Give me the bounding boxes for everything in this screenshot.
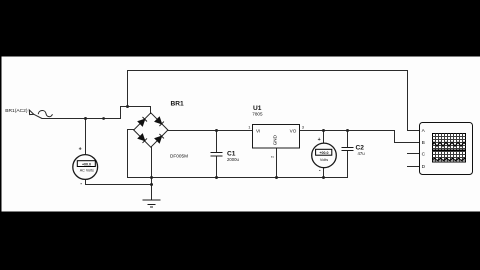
svg-text:47u: 47u [358, 151, 366, 156]
oscilloscope waveform B flat [433, 149, 466, 151]
voltmeter V1 (AC Volts) circle [73, 155, 98, 180]
svg-text:BR1: BR1 [171, 101, 185, 108]
node on input wire [102, 117, 105, 120]
svg-text:DF005M: DF005M [170, 153, 188, 158]
AC source sine symbol [38, 111, 52, 117]
wire bridge right corner to U1 VI [168, 130, 253, 132]
voltmeter V2 (Volts) circle [312, 143, 337, 168]
capacitor C2 plates [342, 148, 354, 151]
junction dots [84, 105, 349, 186]
svg-text:7805: 7805 [252, 111, 263, 116]
diode D1 top-left (left to top) [138, 117, 147, 126]
svg-text:+: + [79, 147, 82, 153]
wire voltmeter1 minus [86, 179, 152, 184]
wire scope C stub [408, 153, 420, 155]
svg-text:+: + [318, 137, 321, 143]
diode D2 top-right (top to right) [155, 117, 164, 126]
svg-text:VO: VO [290, 129, 297, 134]
wire from terminal to source [34, 114, 42, 118]
wire step up to bridge [121, 107, 151, 119]
wire top rail branch to scope A [128, 71, 420, 131]
wire to scope B [395, 131, 420, 143]
node C1 bottom [215, 176, 218, 179]
node voltmeter1 tap [84, 117, 87, 120]
diode D3 bottom-right (bottom to right) [155, 134, 164, 143]
wire ground rail [152, 177, 348, 179]
wire bridge bottom corner down to ground [151, 147, 153, 200]
diode D4 bottom-left (left to bottom) [138, 134, 147, 143]
wire C2 top [347, 131, 349, 148]
svg-text:Volts: Volts [320, 158, 328, 162]
bridge rectifier BR1 diamond [134, 113, 168, 147]
oscilloscope grid [433, 134, 466, 163]
voltmeter V2 display [316, 149, 332, 155]
wire C1 top [216, 131, 218, 153]
wire voltmeter2 plus [323, 131, 325, 144]
wire bridge left corner to ground rail [128, 130, 152, 178]
oscilloscope box [420, 123, 473, 175]
svg-text:C: C [422, 152, 426, 158]
svg-text:+00.0: +00.0 [82, 162, 91, 166]
node C2 top [346, 129, 349, 132]
voltmeter V1 display [77, 161, 95, 167]
svg-text:GND: GND [273, 134, 278, 145]
node top rail branch [126, 105, 129, 108]
node voltmeter2 bottom [322, 176, 325, 179]
svg-text:D: D [422, 164, 426, 170]
node C1 top [215, 129, 218, 132]
svg-text:+00.0: +00.0 [319, 151, 328, 155]
oscilloscope waveform C zigzag [433, 158, 466, 160]
wire scope D stub [408, 166, 420, 168]
svg-text:2000u: 2000u [227, 157, 240, 162]
wire U1 GND pin 2 [276, 148, 278, 178]
node ground rail at bridge [150, 176, 153, 179]
wire C1 bottom [216, 156, 218, 178]
node voltmeter1 minus join [150, 183, 153, 186]
capacitor C1 plates [211, 153, 223, 157]
oscilloscope waveform A zigzag [433, 142, 466, 146]
input terminal BR1(AC2) pin symbol [29, 110, 34, 115]
wire voltmeter1 plus [85, 119, 87, 155]
node voltmeter2 top [322, 129, 325, 132]
svg-text:-: - [80, 181, 82, 187]
wire voltmeter2 minus [323, 168, 325, 178]
wire U1 VO to rail right [300, 130, 395, 132]
svg-text:BR1(AC2): BR1(AC2) [5, 108, 28, 114]
node U1 gnd bottom [275, 176, 278, 179]
svg-text:AC Volts: AC Volts [80, 168, 94, 172]
ground symbol [143, 200, 161, 207]
wire input main [42, 118, 121, 120]
svg-text:B: B [422, 140, 425, 146]
oscilloscope screen [433, 134, 466, 163]
svg-text:-: - [319, 168, 321, 174]
svg-text:VI: VI [256, 129, 260, 134]
wire C2 bottom [347, 151, 349, 178]
voltage regulator U1 box [253, 125, 300, 149]
